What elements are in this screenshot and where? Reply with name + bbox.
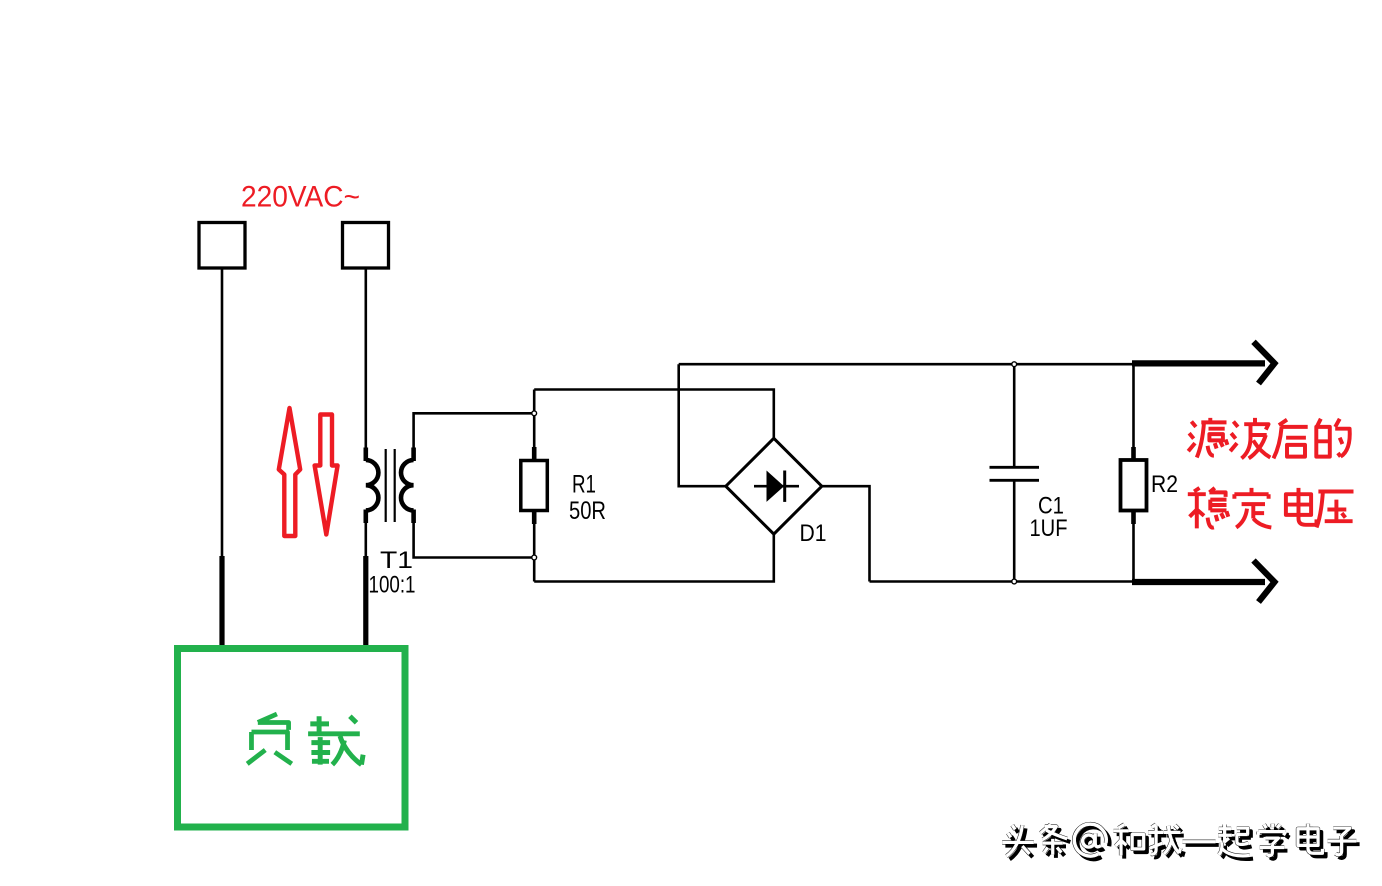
terminal square right	[343, 223, 389, 269]
wire transformer primary bottom thick into load	[364, 522, 367, 558]
resistor R2 branch vertical	[1132, 364, 1135, 581]
svg-text:50R: 50R	[569, 497, 606, 525]
node junction C1 top	[1012, 362, 1017, 367]
svg-text:T1: T1	[380, 547, 413, 574]
resistor R1 body	[521, 461, 548, 511]
wire secondary bottom to R1 node	[414, 522, 535, 558]
svg-text:1UF: 1UF	[1030, 515, 1068, 542]
wire left terminal down	[221, 268, 224, 558]
red current arrow up	[279, 408, 300, 536]
capacitor C1 top lead	[1013, 364, 1016, 467]
transformer T1 primary winding	[366, 448, 379, 524]
capacitor C1 bottom lead	[1013, 480, 1016, 581]
resistor R2 body	[1121, 460, 1147, 511]
transformer T1 secondary winding	[401, 448, 414, 524]
svg-text:R2: R2	[1151, 471, 1178, 498]
output arrow bottom	[1132, 561, 1275, 603]
diode inside D1	[754, 485, 799, 488]
load box green	[178, 649, 406, 828]
svg-text:220VAC~: 220VAC~	[241, 181, 360, 214]
svg-text:R1: R1	[572, 471, 596, 499]
red current arrow down	[315, 415, 338, 535]
transformer T1 core	[385, 449, 387, 522]
wire left thick into load	[219, 556, 224, 649]
wire bridge left vertex to top output rail	[679, 364, 727, 486]
wire right terminal down	[364, 268, 367, 449]
wire R1 top to bridge top	[534, 390, 774, 439]
node junction circle top	[532, 411, 537, 416]
terminal square left	[199, 223, 245, 269]
label 负载 green text	[247, 714, 363, 765]
capacitor C1 plates	[990, 466, 1040, 469]
label 稳定电压 red text	[1188, 488, 1354, 529]
label 滤波后的 red text	[1188, 418, 1350, 459]
top output rail	[679, 363, 1134, 366]
bridge rectifier D1 diamond	[726, 438, 822, 534]
watermark white core layer	[1002, 824, 1356, 856]
svg-text:D1: D1	[800, 520, 827, 547]
watermark 头条 @和我一起学电子 shadow layer	[1005, 827, 1359, 859]
node junction C1 bottom	[1012, 579, 1017, 584]
resistor R1 branch vertical	[533, 390, 536, 582]
bottom output rail	[870, 580, 1134, 583]
wire bridge right vertex to bottom rail	[822, 486, 870, 581]
wire secondary top to R1 node	[414, 413, 535, 448]
wire R1 bottom rail to bridge bottom	[534, 534, 774, 582]
output arrow top	[1132, 342, 1275, 384]
node junction circle bottom	[532, 555, 537, 560]
svg-text:100:1: 100:1	[369, 572, 416, 599]
watermark outline layer	[1002, 824, 1356, 856]
